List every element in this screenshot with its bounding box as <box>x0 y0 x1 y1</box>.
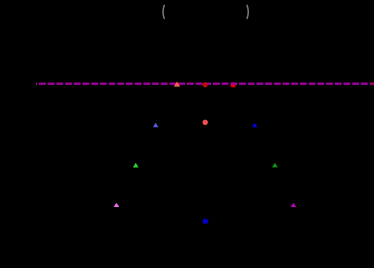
marker light blue triangle-up left <box>153 123 159 127</box>
marker green triangle-up right <box>272 163 278 168</box>
marker red dot clipped at right edge <box>372 83 373 85</box>
marker red pentagon on line (under dashes) <box>230 82 236 88</box>
marker limegreen triangle-up left <box>133 163 139 168</box>
title parenthesis right <box>247 5 248 19</box>
marker coral-red circle center <box>203 120 208 125</box>
marker violet triangle-up left <box>114 203 120 207</box>
marker dark blue blob with right nub bottom <box>203 219 208 224</box>
marker tomato triangle-up on line (over dashes) <box>174 82 180 87</box>
marker magenta triangle-up right <box>291 203 297 207</box>
marker dark red circle on line (over dashes) <box>203 82 208 87</box>
title parenthesis left <box>163 5 164 19</box>
marker blue triangle-up right <box>252 123 258 127</box>
dashed horizontal line <box>36 82 374 84</box>
